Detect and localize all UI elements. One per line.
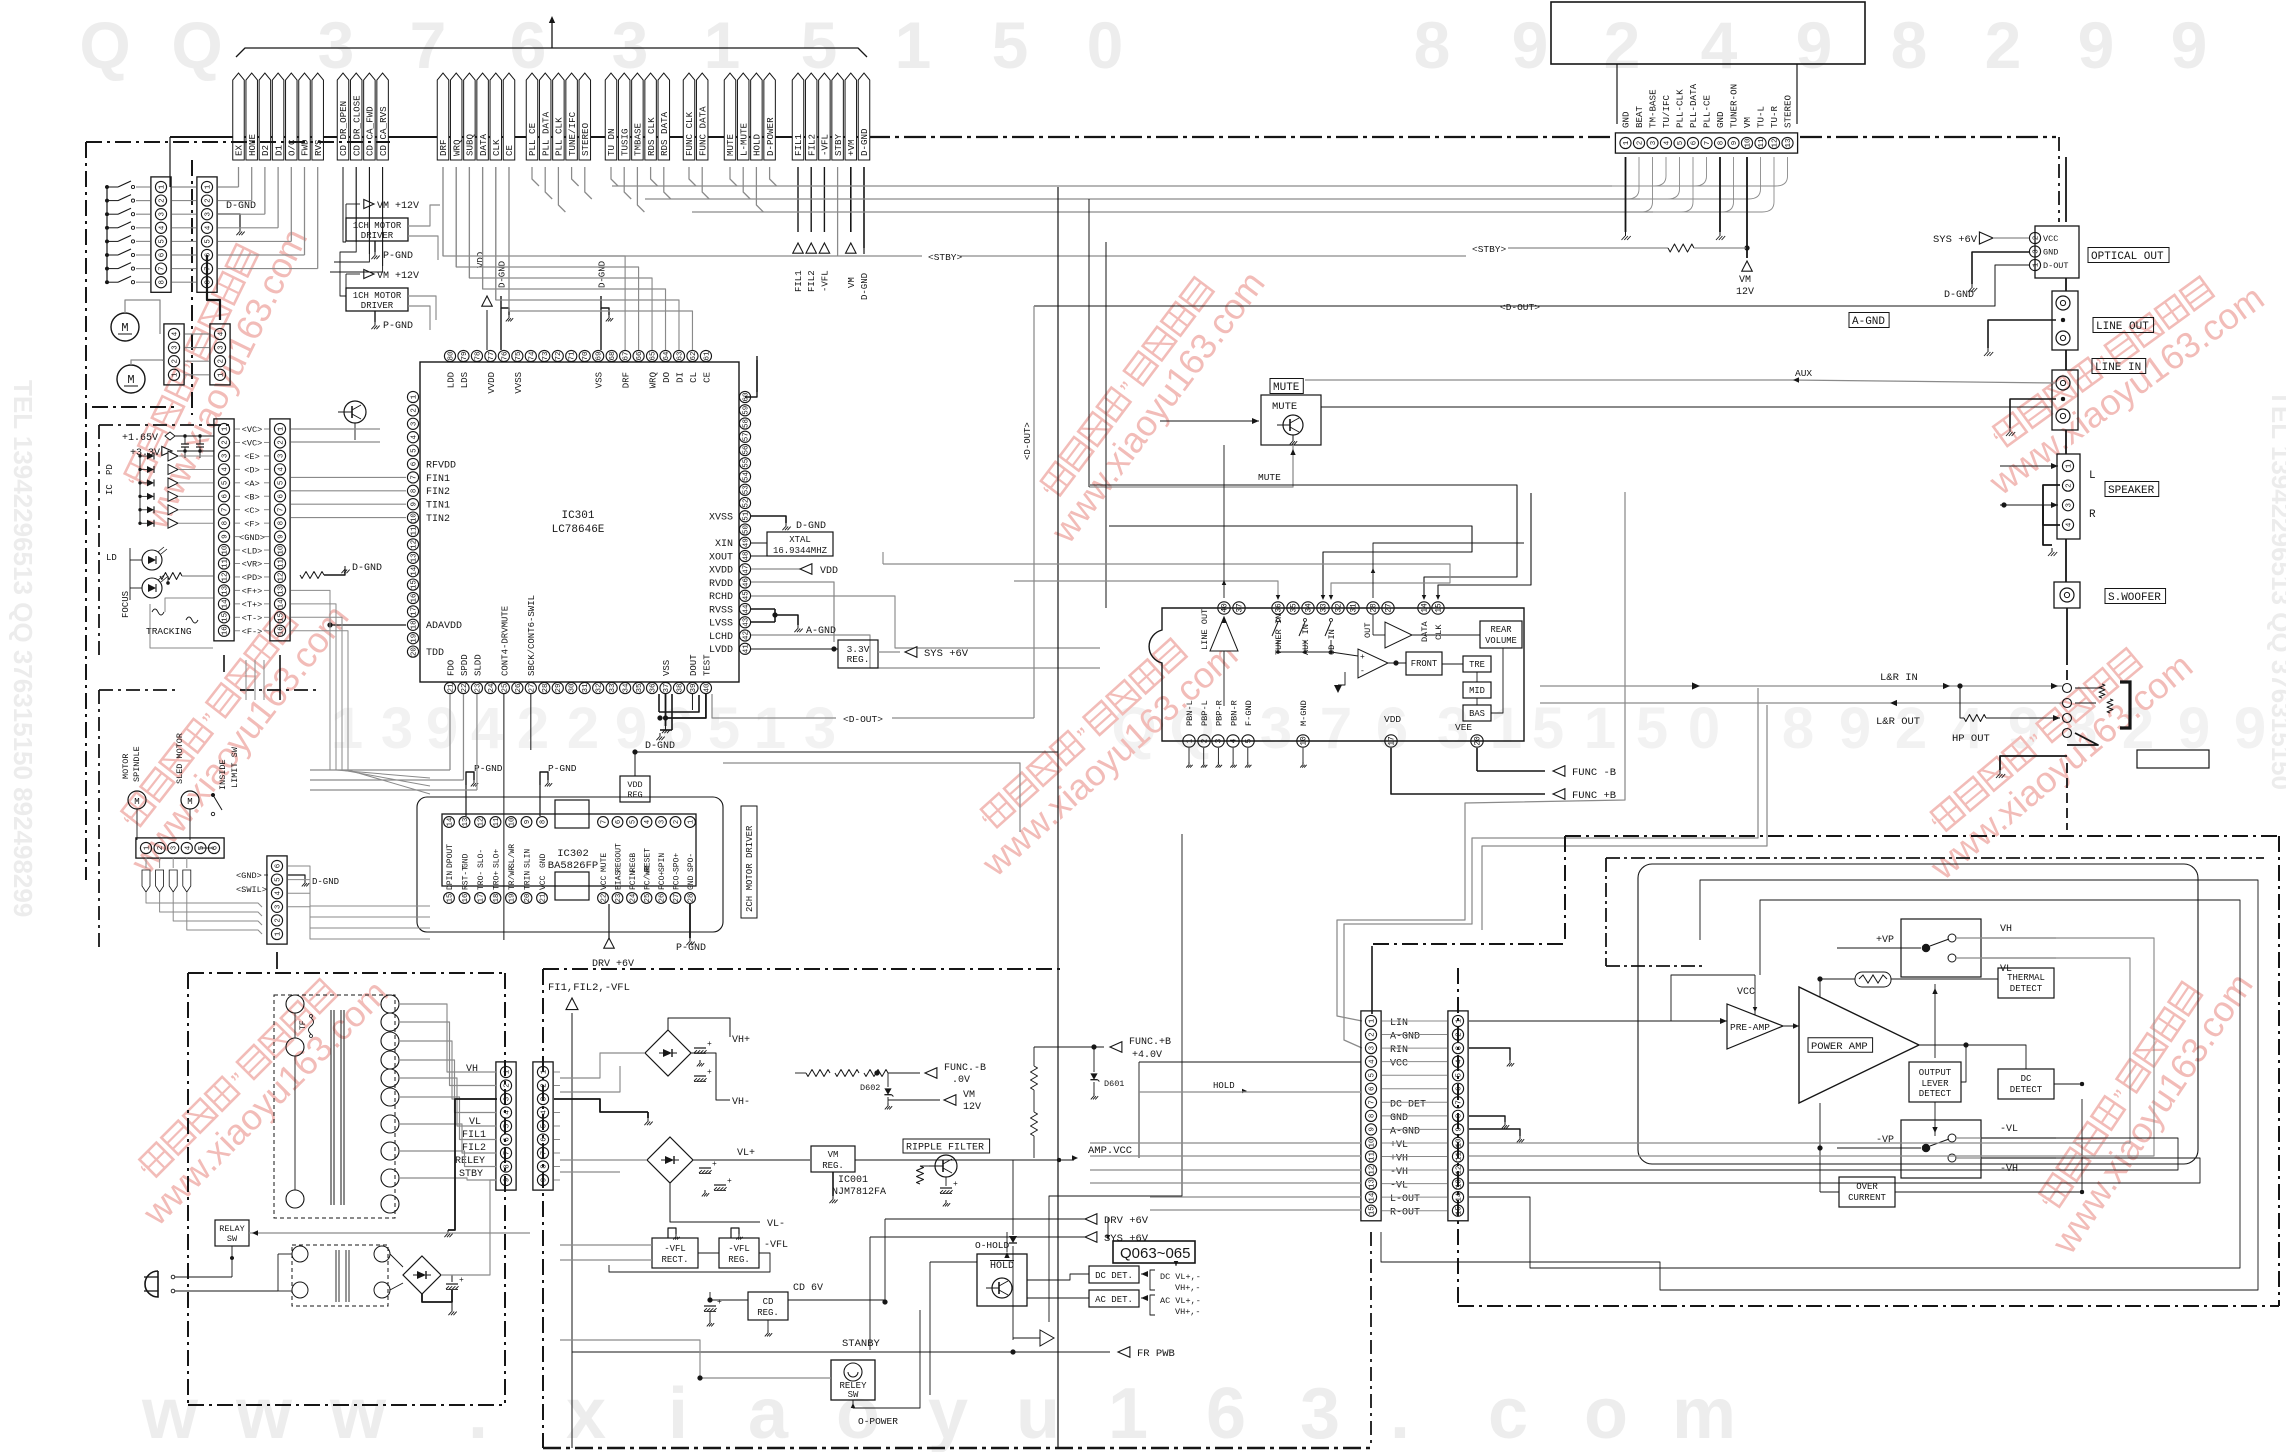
svg-text:9: 9 — [221, 534, 229, 539]
D-OUT wire from pin39 — [744, 647, 746, 649]
svg-text:RECT.: RECT. — [661, 1255, 688, 1265]
svg-text:DETECT: DETECT — [1919, 1089, 1952, 1099]
svg-text:32: 32 — [1336, 603, 1344, 613]
amp section dash-dot borders — [1565, 835, 2279, 837]
svg-text:ADAVDD: ADAVDD — [426, 621, 462, 632]
1CH motor driver boxes — [346, 218, 408, 241]
PRE-AMP — [1727, 1004, 1783, 1049]
svg-text:2: 2 — [274, 918, 282, 923]
svg-text:HOLD: HOLD — [752, 133, 763, 156]
svg-text:2: 2 — [540, 1083, 548, 1088]
6pin horizontal connector — [136, 838, 224, 858]
svg-text:23: 23 — [474, 683, 482, 693]
svg-text:STEREO: STEREO — [1783, 94, 1794, 128]
hp jack body — [2075, 687, 2102, 689]
XTAL — [751, 542, 767, 544]
bundle group2 to motor drivers — [343, 167, 355, 230]
svg-text:TDD: TDD — [426, 648, 444, 659]
svg-text:31: 31 — [1351, 603, 1359, 613]
svg-text:HOME: HOME — [247, 133, 258, 156]
svg-text:0: 0 — [1688, 696, 1720, 761]
grounds at connector H — [1469, 1048, 1510, 1060]
T1 secondary circles — [381, 995, 399, 1013]
svg-text:19: 19 — [508, 894, 516, 903]
pickup section border — [99, 424, 230, 426]
arrow between switches — [1934, 984, 1936, 1058]
amp area stray border — [1060, 831, 1565, 833]
svg-text:FC/WR: FC/WR — [644, 866, 653, 890]
FUNC -B chain — [806, 1070, 830, 1077]
IC302 pins top 7..1 — [598, 817, 609, 828]
audio IC top pins — [1218, 602, 1230, 614]
svg-text:13: 13 — [410, 553, 418, 563]
svg-text:1: 1 — [704, 8, 741, 82]
wires from strip B to flags — [218, 186, 239, 188]
svg-text:FUNC +B: FUNC +B — [1572, 790, 1616, 802]
svg-text:SPO+: SPO+ — [673, 853, 682, 872]
svg-text:8: 8 — [539, 820, 547, 824]
svg-text:1: 1 — [217, 372, 225, 377]
wires IC302 outer loop to left — [300, 829, 417, 831]
4pin connector D — [210, 324, 230, 385]
svg-text:CD CA_FWD: CD CA_FWD — [365, 106, 376, 156]
svg-text:TUSIG: TUSIG — [619, 128, 630, 156]
svg-text:5: 5 — [540, 1123, 548, 1128]
dash-dot below connector G — [1370, 1232, 1372, 1448]
svg-text:SPINDLE: SPINDLE — [132, 746, 142, 782]
svg-text:1: 1 — [2032, 262, 2040, 267]
svg-text:+: + — [717, 1298, 722, 1307]
svg-text:+1.65V: +1.65V — [122, 433, 158, 444]
svg-text:TU-L: TU-L — [1756, 106, 1767, 128]
svg-text:28: 28 — [542, 683, 550, 692]
focus/tracking wiring box — [150, 604, 213, 648]
svg-text:DC DET: DC DET — [1390, 1099, 1426, 1110]
bottom borders — [543, 1447, 1370, 1449]
svg-text:FUNC.-B: FUNC.-B — [944, 1063, 986, 1074]
svg-text:REGB: REGB — [629, 853, 638, 872]
svg-text:MUTE: MUTE — [600, 853, 609, 872]
svg-text:<F+>: <F+> — [242, 587, 263, 597]
svg-text:3: 3 — [1216, 738, 1224, 743]
svg-text:9: 9 — [2171, 8, 2208, 82]
svg-text:<T+>: <T+> — [242, 600, 263, 610]
svg-text:y: y — [928, 1374, 968, 1452]
bundle group3 to IC301 top — [443, 167, 625, 350]
svg-text:9: 9 — [2008, 696, 2040, 761]
svg-text:VM: VM — [963, 1090, 975, 1101]
wire loop around audio ic right — [1594, 608, 1607, 756]
svg-text:37: 37 — [1237, 603, 1245, 613]
svg-text:5: 5 — [1532, 696, 1564, 761]
svg-text:4: 4 — [410, 434, 418, 439]
svg-text:<E>: <E> — [244, 452, 259, 462]
svg-text:SLDD: SLDD — [473, 654, 483, 676]
svg-text:RVSS: RVSS — [709, 605, 733, 616]
svg-text:12V: 12V — [963, 1102, 981, 1113]
svg-text:SBCK/CONT6-SWIL: SBCK/CONT6-SWIL — [527, 595, 537, 676]
svg-text:1: 1 — [274, 931, 282, 936]
svg-text:DI: DI — [675, 372, 685, 383]
svg-text:VL+: VL+ — [737, 1148, 755, 1159]
svg-text:OPTICAL OUT: OPTICAL OUT — [2091, 251, 2164, 263]
svg-text:74: 74 — [528, 351, 536, 361]
svg-text:7: 7 — [1704, 141, 1712, 146]
svg-text:10: 10 — [277, 545, 285, 555]
FRONT box — [1406, 652, 1442, 675]
svg-text:IC: IC — [105, 484, 115, 495]
svg-text:12: 12 — [1368, 1166, 1376, 1175]
svg-text:10: 10 — [1455, 1138, 1463, 1148]
svg-text:XOUT: XOUT — [709, 552, 733, 563]
svg-text:L&R OUT: L&R OUT — [1876, 716, 1920, 728]
svg-text:4: 4 — [277, 467, 285, 472]
audio IC bottom pins — [1183, 735, 1195, 747]
svg-text:4: 4 — [1231, 738, 1239, 743]
svg-text:9: 9 — [1731, 141, 1739, 146]
svg-text:M: M — [187, 797, 192, 807]
bundle from sled 6pin to IC302 bottom — [288, 866, 430, 906]
svg-text:6: 6 — [503, 1137, 511, 1142]
svg-text:12: 12 — [477, 818, 485, 827]
svg-text:D601: D601 — [1104, 1079, 1124, 1089]
svg-text:54: 54 — [742, 472, 750, 482]
svg-text:.0V: .0V — [952, 1075, 970, 1086]
svg-text:PD: PD — [105, 464, 115, 475]
wires from IC302 loop right to verticals — [635, 751, 1058, 753]
svg-text:+: + — [1360, 653, 1365, 662]
VCC wire from connector — [1469, 1049, 1700, 1062]
svg-text:FIL1: FIL1 — [793, 133, 804, 156]
svg-text:11: 11 — [221, 559, 229, 569]
svg-text:1: 1 — [1455, 1018, 1463, 1023]
IC301 pins21-23 wires left — [310, 769, 450, 771]
3.3V REG — [838, 640, 878, 668]
IC301 right col outside stubs — [712, 356, 757, 390]
svg-text:16: 16 — [462, 894, 470, 903]
mute block — [1261, 395, 1321, 445]
signal flags FIL1..D-GND — [792, 73, 804, 160]
svg-text:.: . — [468, 1374, 488, 1452]
svg-text:7: 7 — [600, 820, 608, 824]
svg-text:7: 7 — [410, 8, 447, 82]
svg-text:9: 9 — [540, 1178, 548, 1183]
IC301 pins bottom row 21..40 — [444, 682, 455, 693]
-VP switch — [1901, 1120, 1981, 1178]
svg-text:<GND>: <GND> — [239, 533, 265, 543]
svg-text:2: 2 — [157, 846, 165, 851]
svg-text:RDS CLK: RDS CLK — [646, 117, 657, 156]
svg-text:FOCUS: FOCUS — [121, 591, 131, 618]
svg-text:5: 5 — [274, 877, 282, 882]
svg-text:1: 1 — [410, 394, 418, 399]
svg-text:D1: D1 — [273, 144, 284, 156]
svg-text:O-POWER: O-POWER — [858, 1416, 898, 1427]
svg-text:VM +12V: VM +12V — [377, 271, 419, 282]
svg-text:VL-: VL- — [767, 1219, 785, 1230]
+VP switch — [1901, 919, 1981, 977]
svg-text:<VC>: <VC> — [242, 439, 263, 449]
svg-text:11: 11 — [493, 818, 501, 827]
svg-text:DATA: DATA — [478, 133, 489, 156]
svg-text:10: 10 — [221, 545, 229, 555]
VCC riser to connector G — [1138, 1062, 1140, 1158]
svg-text:24: 24 — [488, 683, 496, 693]
svg-text:9: 9 — [410, 502, 418, 507]
svg-text:31: 31 — [582, 683, 590, 693]
svg-text:LVSS: LVSS — [709, 619, 733, 630]
svg-text:2: 2 — [1895, 696, 1927, 761]
svg-text:9: 9 — [503, 1178, 511, 1183]
FUNC +B — [1034, 1046, 1104, 1048]
svg-text:+: + — [727, 1177, 732, 1186]
IC301 LC78646E body — [420, 362, 739, 682]
svg-text:SW: SW — [848, 1390, 859, 1400]
svg-text:RVDD: RVDD — [709, 579, 733, 590]
svg-text:75: 75 — [515, 351, 523, 361]
svg-text:57: 57 — [742, 432, 750, 441]
svg-text:SW: SW — [227, 1234, 238, 1244]
svg-text:64: 64 — [663, 351, 671, 361]
svg-text:LD: LD — [106, 553, 117, 563]
svg-text:4: 4 — [1701, 8, 1738, 82]
svg-text:R: R — [2089, 509, 2096, 521]
svg-text:IC301: IC301 — [561, 510, 594, 522]
svg-text:O-HOLD: O-HOLD — [975, 1240, 1010, 1251]
svg-text:18: 18 — [493, 894, 501, 903]
svg-text:4: 4 — [184, 845, 192, 850]
audio S-wires to amp connector — [1337, 492, 1625, 1021]
svg-text:F-GND: F-GND — [1244, 700, 1254, 726]
svg-text:REG.: REG. — [822, 1161, 844, 1171]
svg-text:<PD>: <PD> — [242, 573, 263, 583]
svg-text:50: 50 — [742, 525, 750, 535]
power connector CN 9pin B — [533, 1062, 553, 1190]
svg-text:26: 26 — [658, 894, 666, 903]
svg-text:REG.: REG. — [757, 1308, 779, 1318]
svg-text:VSS: VSS — [662, 660, 672, 676]
svg-text:25: 25 — [644, 894, 652, 903]
transistor near IC301 — [344, 401, 366, 423]
headphone jack — [2063, 684, 2072, 693]
svg-text:GND: GND — [1715, 111, 1726, 128]
svg-text:9: 9 — [2078, 8, 2115, 82]
svg-text:-VFL: -VFL — [664, 1244, 686, 1254]
svg-text:TEL 13942296513 QQ 376315150 8: TEL 13942296513 QQ 376315150 892498299 — [8, 380, 38, 917]
svg-text:20: 20 — [524, 894, 532, 903]
svg-text:LIMIT SW: LIMIT SW — [230, 746, 240, 788]
svg-text:POWER AMP: POWER AMP — [1811, 1041, 1868, 1053]
dashed tail below HP gnd — [2066, 763, 2068, 830]
svg-text:A-GND: A-GND — [1390, 1032, 1420, 1043]
svg-text:15: 15 — [1455, 1206, 1463, 1216]
svg-text:VEE: VEE — [1455, 722, 1472, 733]
svg-text:-VFL: -VFL — [728, 1244, 750, 1254]
svg-text:34: 34 — [1306, 603, 1314, 613]
svg-text:15: 15 — [410, 580, 418, 590]
svg-text:44: 44 — [742, 604, 750, 614]
d-gnd for optical — [1972, 252, 2029, 284]
svg-text:-VFL: -VFL — [820, 270, 830, 292]
svg-text:19: 19 — [410, 634, 418, 643]
svg-text:VDD: VDD — [820, 566, 838, 577]
svg-text:8: 8 — [1891, 8, 1928, 82]
svg-text:LINE OUT: LINE OUT — [1200, 609, 1210, 650]
svg-text:VH+,-: VH+,- — [1175, 1307, 1201, 1317]
motor M1 — [111, 313, 139, 341]
svg-text:59: 59 — [742, 406, 750, 415]
connector strip B 8pin — [197, 177, 217, 292]
svg-text:27: 27 — [673, 894, 681, 903]
svg-text:22: 22 — [600, 894, 608, 903]
svg-text:21: 21 — [447, 683, 455, 693]
svg-text:8: 8 — [1455, 1114, 1463, 1119]
svg-text:4: 4 — [2065, 522, 2073, 527]
optical out connector — [2035, 226, 2079, 278]
audio IC body with notch — [1149, 608, 1524, 741]
svg-text:m: m — [1672, 1374, 1736, 1452]
svg-text:Q063~065: Q063~065 — [1120, 1245, 1190, 1262]
svg-text:9: 9 — [426, 696, 458, 761]
svg-text:9: 9 — [524, 820, 532, 824]
svg-text:M: M — [127, 373, 134, 387]
-VFL RECT / REG — [652, 1238, 698, 1268]
svg-text:6: 6 — [221, 494, 229, 499]
D-GND at pin51 XVSS — [751, 516, 786, 523]
svg-text:MOTOR: MOTOR — [121, 753, 131, 779]
svg-text:4: 4 — [644, 820, 652, 824]
svg-text:M: M — [134, 797, 139, 807]
amp wire loops — [1638, 864, 2198, 1164]
svg-text:D2: D2 — [260, 145, 271, 156]
svg-text:Q: Q — [171, 8, 222, 82]
svg-text:FCIN: FCIN — [629, 871, 638, 890]
svg-text:4: 4 — [1368, 1059, 1376, 1064]
svg-text:CL: CL — [689, 372, 699, 383]
svg-text:VCC: VCC — [2043, 234, 2058, 244]
RELEY SW — [831, 1360, 875, 1400]
svg-text:XTAL: XTAL — [789, 535, 811, 545]
svg-text:9: 9 — [615, 696, 647, 761]
svg-text:DC VL+,-: DC VL+,- — [1160, 1272, 1201, 1282]
bridge VH — [645, 1030, 691, 1076]
svg-text:FIL2: FIL2 — [806, 134, 817, 156]
svg-text:2: 2 — [277, 440, 285, 445]
svg-text:FRONT: FRONT — [1411, 659, 1437, 669]
svg-text:13: 13 — [1785, 138, 1793, 148]
svg-text:FCO+: FCO+ — [658, 871, 667, 890]
svg-text:7: 7 — [1455, 1100, 1463, 1105]
15pin connector G — [1361, 1011, 1381, 1221]
OUTPUT LEVER DETECT — [1909, 1062, 1961, 1102]
svg-text:<D-OUT>: <D-OUT> — [1500, 302, 1540, 313]
svg-text:3: 3 — [217, 345, 225, 350]
svg-text:10: 10 — [508, 818, 516, 827]
svg-text:47: 47 — [742, 565, 750, 574]
svg-text:AMP.VCC: AMP.VCC — [1088, 1145, 1132, 1157]
svg-text:LCHD: LCHD — [709, 632, 733, 643]
svg-text:9: 9 — [1512, 8, 1549, 82]
4pin connector C — [164, 324, 184, 385]
caps on supply — [184, 436, 186, 444]
svg-text:DRF: DRF — [438, 139, 449, 156]
svg-text:VM +12V: VM +12V — [377, 201, 419, 212]
connector G top wire — [1371, 946, 1373, 1014]
svg-text:OUT: OUT — [1363, 623, 1373, 638]
groups 4-7 wires fan into bus lines — [532, 167, 539, 186]
svg-text:<B>: <B> — [244, 492, 259, 502]
svg-text:3: 3 — [204, 211, 212, 216]
svg-text:GND: GND — [687, 875, 696, 890]
signal flags TU DN..RDS DATA — [605, 73, 617, 160]
svg-text:21: 21 — [539, 894, 547, 903]
svg-text:<LD>: <LD> — [242, 546, 263, 556]
signal flags EX..RVS — [233, 73, 245, 160]
svg-text:1: 1 — [1623, 140, 1631, 145]
svg-text:8: 8 — [1414, 8, 1451, 82]
svg-text:AUX: AUX — [1795, 368, 1812, 379]
svg-text:43: 43 — [742, 617, 750, 627]
svg-text:P-GND: P-GND — [676, 943, 706, 954]
signal flags MUTE..D-POWER — [724, 73, 736, 160]
svg-text:DO: DO — [662, 372, 672, 383]
svg-text:70: 70 — [582, 351, 590, 361]
svg-text:2: 2 — [673, 820, 681, 824]
svg-text:14: 14 — [410, 566, 418, 576]
svg-text:7: 7 — [410, 475, 418, 480]
thick wire strip B to D — [207, 255, 220, 320]
svg-text:12: 12 — [410, 540, 418, 549]
svg-text:GND: GND — [1390, 1113, 1408, 1124]
svg-text:3: 3 — [158, 211, 166, 216]
svg-text:VVDD: VVDD — [487, 372, 497, 394]
D-GND — [288, 875, 305, 880]
thick gnd wires pins 1,8 — [1625, 157, 1627, 232]
svg-text:SLO+: SLO+ — [493, 849, 502, 868]
svg-text:5: 5 — [1455, 1072, 1463, 1077]
svg-text:AC DET.: AC DET. — [1095, 1295, 1133, 1305]
svg-text:32: 32 — [596, 683, 604, 692]
svg-text:4: 4 — [171, 331, 179, 336]
svg-text:25: 25 — [501, 683, 509, 693]
svg-text:D-GND: D-GND — [860, 273, 870, 300]
svg-text:TMBASE: TMBASE — [633, 122, 644, 156]
svg-text:CD 6V: CD 6V — [793, 1283, 823, 1294]
svg-text:LINE OUT: LINE OUT — [2096, 321, 2149, 333]
svg-text:2: 2 — [1368, 1032, 1376, 1037]
svg-text:5: 5 — [410, 448, 418, 453]
svg-text:LINE IN: LINE IN — [2095, 362, 2141, 374]
DRV +6V below IC302 — [608, 904, 610, 938]
svg-text:12: 12 — [1455, 1166, 1463, 1175]
svg-text:P-GND: P-GND — [474, 763, 503, 774]
svg-text:17: 17 — [410, 607, 418, 616]
svg-text:1: 1 — [1187, 738, 1195, 743]
svg-text:INSIDE: INSIDE — [218, 759, 228, 790]
svg-text:L&R IN: L&R IN — [1880, 672, 1918, 684]
svg-text:1: 1 — [158, 184, 166, 189]
svg-text:FIN1: FIN1 — [426, 474, 450, 485]
svg-text:VCC: VCC — [1737, 987, 1755, 998]
svg-text:9: 9 — [1368, 1127, 1376, 1132]
svg-text:FDO: FDO — [446, 660, 456, 676]
wires motor drivers to flags — [343, 167, 346, 242]
svg-text:REAR: REAR — [1490, 625, 1512, 635]
IC302 outer wire loops — [417, 797, 723, 932]
diode mid — [1009, 1236, 1017, 1243]
svg-text:PLL CE: PLL CE — [527, 122, 538, 156]
svg-text:BIAS: BIAS — [615, 871, 624, 890]
